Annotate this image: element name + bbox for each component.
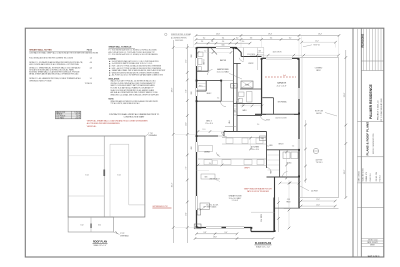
entry jog diagonal (236, 48, 241, 53)
svg-text:STOR.: STOR. (266, 120, 271, 122)
svg-text:8'-2": 8'-2" (185, 59, 187, 62)
bath2 walls (234, 102, 263, 104)
kitchen upper counter (222, 137, 267, 139)
svg-text:2'-6: 2'-6 (211, 41, 214, 43)
svg-text:2'-8: 2'-8 (242, 105, 245, 107)
svg-text:VERIFY ALL SHEAR WALL LOCATION: VERIFY ALL SHEAR WALL LOCATIONS AND HOLD… (87, 119, 148, 122)
top dimension line outer (196, 35, 339, 37)
svg-text:11'-0 x 11'-4: 11'-0 x 11'-4 (205, 123, 213, 125)
bath2 fixtures (239, 92, 245, 97)
fridge box (260, 136, 267, 141)
pantry wall vertical (279, 150, 281, 177)
svg-text:462 SF: 462 SF (76, 114, 81, 116)
svg-text:6'-4: 6'-4 (222, 37, 225, 39)
svg-text:4'-6: 4'-6 (222, 41, 225, 43)
svg-text:18'-0": 18'-0" (344, 169, 346, 174)
svg-text:24'-6": 24'-6" (216, 33, 220, 35)
dining door arc (217, 152, 221, 156)
roof overhang callout top (145, 134, 148, 136)
pantry shelves (268, 154, 280, 156)
great room bottom wall (197, 227, 252, 229)
svg-text:GREAT ROOM: GREAT ROOM (229, 194, 242, 197)
svg-text:SHT 2 OF 3: SHT 2 OF 3 (368, 256, 380, 258)
inner dim mudroom (286, 150, 288, 179)
water heater upper box (197, 209, 200, 215)
bottom jog wall (250, 228, 252, 232)
patio right wall (273, 198, 275, 232)
svg-text:4060: 4060 (191, 146, 193, 149)
svg-text:SHEAR WALL SCHEDULE: SHEAR WALL SCHEDULE (109, 45, 133, 48)
svg-text:6'-6: 6'-6 (270, 37, 273, 39)
svg-text:16070 OH DR: 16070 OH DR (273, 51, 282, 53)
top dimension line mid (196, 38, 299, 40)
bottom dimension line outer (195, 238, 273, 240)
revision table column lines (363, 28, 365, 70)
covered patio outline (299, 57, 339, 59)
svg-text:64 SF: 64 SF (76, 116, 80, 118)
right dimension line (345, 50, 347, 198)
top wall window (216, 47, 230, 49)
title block divider 2 (357, 156, 383, 158)
dining buffet (199, 146, 213, 152)
wd closet box (231, 84, 238, 89)
svg-text:LEGEND:: LEGEND: (109, 59, 117, 61)
svg-text:W/D: W/D (233, 86, 236, 88)
hall closet light wall (225, 126, 236, 128)
inner dim great room right (280, 182, 299, 184)
garage door opening (266, 57, 292, 59)
svg-text:PAGE: PAGE (87, 48, 93, 51)
extension lines top (193, 37, 195, 48)
garage door dim line (250, 54, 339, 56)
general notes underline (29, 51, 92, 53)
svg-text:22'-8": 22'-8" (344, 92, 346, 97)
svg-text:6:12: 6:12 (98, 225, 101, 227)
svg-text:3050: 3050 (191, 91, 193, 94)
svg-text:FLOOR PLAN: FLOOR PLAN (255, 242, 271, 245)
svg-text:256 SF: 256 SF (76, 118, 81, 120)
patio top dim (302, 41, 336, 43)
svg-text:MASTER BED: MASTER BED (217, 68, 229, 71)
floor area table (55, 111, 80, 119)
svg-text:4x6 POST: 4x6 POST (311, 191, 318, 193)
sheet border frame (25, 28, 384, 257)
svg-text:PALMER RESIDENCE: PALMER RESIDENCE (369, 83, 373, 119)
svg-text:6'-2: 6'-2 (203, 37, 206, 39)
bath1 wall vertical (207, 48, 209, 72)
roof red note line (152, 207, 171, 209)
svg-text:3'-0: 3'-0 (257, 124, 260, 126)
garage front wall (262, 57, 267, 59)
roof line leader top right (303, 45, 312, 47)
svg-text:18'-8": 18'-8" (213, 237, 217, 239)
bottom wall mid pier (222, 227, 227, 229)
laundry vertical dim (305, 120, 307, 183)
svg-text:COV. PORCH: COV. PORCH (247, 54, 255, 56)
patio roof light line (251, 211, 275, 213)
roof plane break lines (68, 155, 104, 157)
svg-text:PROJECT #: 2021-14: PROJECT #: 2021-14 (378, 100, 380, 120)
garage door marks (266, 113, 294, 115)
svg-text:16'-0 x 13'-0: 16'-0 x 13'-0 (251, 149, 259, 151)
svg-text:6:12: 6:12 (80, 225, 83, 227)
inner dim kitchen (250, 137, 252, 150)
svg-text:13'-2": 13'-2" (318, 33, 322, 35)
patio bottom long line (284, 208, 339, 210)
svg-text:ROOF PLAN: ROOF PLAN (93, 241, 107, 244)
svg-text:12'-8": 12'-8" (316, 204, 320, 206)
wing ridge (90, 217, 92, 232)
title block left edge line (352, 28, 354, 257)
svg-text:3050: 3050 (191, 54, 193, 57)
svg-text:4-6: 4-6 (90, 67, 92, 69)
bath2 inner dim (240, 105, 262, 107)
hall top wall (240, 88, 262, 90)
sheet info rows (361, 237, 384, 239)
svg-text:KITCHEN: KITCHEN (251, 147, 260, 149)
svg-text:OPENINGS OVER 6 FT WIDE: OPENINGS OVER 6 FT WIDE (29, 80, 52, 82)
svg-text:5'-0: 5'-0 (204, 51, 207, 53)
left wall window symbols (196, 58, 198, 66)
hall upper light wall (221, 80, 233, 82)
garage right exterior wall (298, 58, 300, 208)
svg-text:6'-0: 6'-0 (289, 37, 292, 39)
porch post lines (242, 48, 244, 61)
svg-text:1,764 SF: 1,764 SF (74, 112, 80, 114)
patio left wall (274, 177, 276, 232)
svg-text:INSULATION:: INSULATION: (109, 77, 121, 80)
svg-text:3'-8: 3'-8 (201, 41, 204, 43)
linen shelves (234, 105, 237, 107)
bed2 bottom wall (197, 80, 222, 82)
svg-text:4'-0: 4'-0 (242, 41, 245, 43)
svg-text:28'-6": 28'-6" (171, 87, 173, 92)
bath1 fixtures (198, 52, 203, 57)
kitchen eating bar (201, 174, 215, 179)
svg-text:CHKD: DLH: CHKD: DLH (370, 173, 372, 181)
svg-text:DINING: DINING (204, 152, 210, 154)
svg-text:COV. PORCH: COV. PORCH (56, 116, 65, 118)
bed3 bottom wall (197, 135, 219, 137)
roof valley line pair (109, 144, 111, 217)
garage house separation wall (255, 113, 299, 115)
svg-text:11'-6": 11'-6" (316, 199, 320, 201)
plan key note text (165, 33, 167, 35)
svg-text:16x8 O.H. DOOR: 16x8 O.H. DOOR (275, 118, 286, 120)
svg-text:ALL TRUSSES PER MFR ENGINEERIN: ALL TRUSSES PER MFR ENGINEERING (87, 122, 121, 125)
patio vertical dim (278, 197, 280, 232)
svg-text:REVISIONS: REVISIONS (361, 34, 364, 48)
svg-text:21'-4" x 22'-8": 21'-4" x 22'-8" (277, 85, 287, 87)
patio beam line (274, 207, 299, 209)
svg-text:9' CLG HT: 9' CLG HT (232, 200, 239, 202)
svg-text:4x6 POST: 4x6 POST (316, 160, 323, 162)
svg-text:LIN: LIN (235, 110, 237, 112)
roof plan outline (68, 136, 145, 217)
right wall windows (298, 88, 300, 99)
hall closet wall vertical 2 (236, 63, 238, 132)
dining inner dim (198, 164, 222, 166)
left dimension line outer (172, 40, 174, 243)
svg-text:6'-8: 6'-8 (250, 37, 253, 39)
svg-text:BED 3: BED 3 (206, 121, 211, 123)
svg-text:GARAGE: GARAGE (277, 81, 287, 84)
patio bottom dim lines (301, 200, 335, 202)
title block divider (357, 120, 383, 122)
top right corner ext line (298, 47, 300, 58)
revision table divider lines (361, 60, 384, 62)
svg-text:1-0: 1-0 (90, 58, 92, 60)
svg-text:2' TYP: 2' TYP (120, 233, 124, 235)
roof ridge line (103, 136, 105, 217)
svg-text:SHEAR WALL NOTES: SHEAR WALL NOTES (29, 48, 52, 51)
title block divider 4 (357, 206, 383, 208)
svg-text:6:12: 6:12 (85, 175, 88, 177)
svg-text:11'-2": 11'-2" (315, 40, 319, 42)
patio wall face line (301, 58, 303, 198)
svg-text:3'-0: 3'-0 (236, 37, 239, 39)
title block content column left line (360, 28, 362, 257)
top exterior wall (197, 47, 237, 49)
hall side wall vertical (220, 81, 222, 102)
svg-text:5040: 5040 (221, 44, 224, 46)
patio circle symbol (313, 148, 318, 153)
svg-text:SEE SCHED.: SEE SCHED. (175, 40, 184, 42)
master closet shelves (198, 83, 206, 85)
hall closet wall vertical 1 (233, 48, 235, 132)
mud room top wall (267, 149, 300, 151)
roof plan lower wing (68, 217, 113, 232)
wic walls (205, 81, 207, 91)
inner dim bed3 (198, 131, 224, 133)
svg-text:6'-8": 6'-8" (185, 89, 187, 92)
top dimension line inner (196, 42, 250, 44)
left exterior wall (196, 48, 198, 228)
svg-text:COVERED: COVERED (315, 68, 323, 70)
laundry washer dryer (283, 152, 290, 159)
closet top wall (234, 63, 241, 65)
garage red work line (265, 76, 296, 78)
svg-text:REF: REF (261, 138, 264, 140)
porch roof edge (237, 47, 264, 49)
svg-text:5'-8: 5'-8 (292, 146, 295, 148)
svg-text:NEW S.F. RESIDENCE FOR: NEW S.F. RESIDENCE FOR (373, 133, 375, 154)
bottom wall window (206, 227, 244, 229)
svg-text:VERIFY: VERIFY (244, 168, 249, 170)
inner dim bed2 (198, 52, 231, 54)
svg-text:ROOF LN: ROOF LN (314, 44, 320, 46)
svg-text:8'-4": 8'-4" (185, 212, 187, 215)
svg-text:11'-0": 11'-0" (185, 122, 187, 126)
shower diagonal (211, 48, 217, 55)
svg-text:FURN: FURN (245, 84, 249, 86)
wall connector (223, 132, 225, 137)
title block divider 3 (357, 182, 383, 184)
kitchen top wall (224, 131, 267, 133)
svg-text:16'-0 SL. GL. DR.: 16'-0 SL. GL. DR. (207, 204, 219, 206)
svg-text:6:12: 6:12 (117, 175, 120, 177)
svg-text:4'-2: 4'-2 (267, 146, 270, 148)
hall wall horizontal (197, 100, 222, 102)
garage interior closet (262, 97, 274, 99)
svg-text:3'-6: 3'-6 (217, 98, 220, 100)
svg-text:4x4: 4x4 (283, 75, 285, 77)
door arcs (207, 70, 212, 76)
left dimension line inner (186, 44, 188, 243)
entry jog wall (240, 53, 242, 57)
svg-text:LOT 7, CEDAR HEIGHTS SUB.: LOT 7, CEDAR HEIGHTS SUB. (380, 98, 383, 122)
svg-text:BED 2: BED 2 (207, 93, 212, 95)
svg-text:30'-2": 30'-2" (171, 182, 173, 187)
water heater (194, 224, 201, 229)
garage left wall (261, 58, 263, 114)
svg-text:MUD: MUD (269, 145, 272, 147)
svg-text:DN: DN (259, 51, 261, 53)
svg-text:4-6: 4-6 (90, 62, 92, 64)
svg-text:BENCH: BENCH (279, 144, 284, 146)
svg-text:PLANS & ROOF PLANS: PLANS & ROOF PLANS (365, 122, 369, 156)
hold-down markers (196, 47, 198, 49)
roof overhang callout bottom (113, 232, 119, 234)
svg-text:9'-8": 9'-8" (204, 232, 207, 234)
svg-text:ROOF LINE: ROOF LINE (315, 111, 323, 113)
svg-text:CONSTRUCTION START: CONSTRUCTION START (124, 116, 146, 119)
porch step marks (257, 52, 263, 54)
svg-text:11'-0: 11'-0 (203, 129, 206, 131)
svg-text:SHEET: SHEET (370, 245, 375, 247)
svg-text:7'-6": 7'-6" (185, 166, 187, 169)
extension lines left (175, 47, 196, 49)
svg-text:19'-4": 19'-4" (268, 33, 272, 35)
kitchen island counter (198, 158, 267, 160)
svg-text:JOB NO: 2114: JOB NO: 2114 (368, 239, 378, 241)
svg-text:2' TYP: 2' TYP (148, 133, 152, 135)
svg-text:JOB NO: 2114: JOB NO: 2114 (376, 172, 378, 182)
svg-text:TYP OF 3: TYP OF 3 (316, 162, 323, 164)
bottom dimension line inner (197, 233, 238, 235)
svg-text:9'-2: 9'-2 (217, 155, 220, 157)
svg-text:1-1: 1-1 (90, 78, 92, 80)
svg-text:VERIFY ALL: VERIFY ALL (87, 125, 97, 128)
laundry bottom wall (267, 176, 300, 178)
svg-text:NOTE:: NOTE: (109, 99, 115, 101)
bath1 wall horizontal (197, 70, 209, 72)
mech closet (241, 81, 253, 88)
svg-text:ENTRY: ENTRY (248, 63, 253, 65)
svg-text:9'-0": 9'-0" (225, 232, 228, 234)
garage left wall inner line (262, 58, 264, 114)
great room right wall (266, 132, 268, 169)
patio inner dim (288, 180, 290, 228)
window seat (200, 203, 210, 209)
title block inner edge line (356, 28, 358, 257)
